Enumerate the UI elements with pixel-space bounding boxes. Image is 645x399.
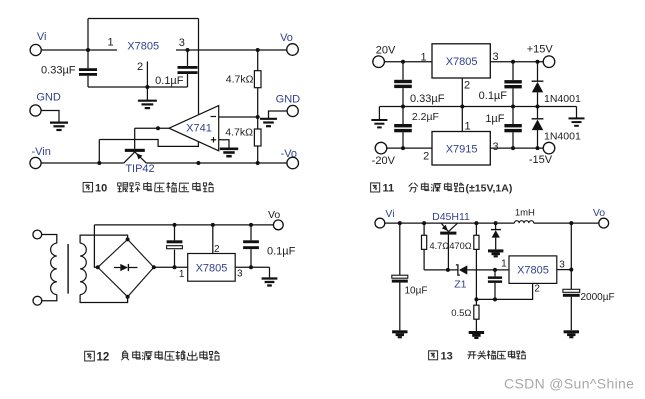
wire input rail fig13: [385, 222, 515, 224]
regulator U3 X7805 box: [432, 44, 490, 78]
junction dot 10uF tap: [398, 221, 402, 225]
pin 2 lead fig12: [212, 225, 214, 254]
bridge inner diode: [114, 267, 120, 269]
junction dot 1uF tap: [511, 146, 515, 150]
junction dot diode2 tap: [536, 146, 540, 150]
junction dot bridge left: [96, 265, 100, 269]
svg-text:1: 1: [465, 121, 471, 133]
svg-text:0.5Ω: 0.5Ω: [451, 308, 471, 319]
wire left edge with 0.33uF branch: [87, 19, 89, 88]
junction dot pin3 fig13: [569, 268, 573, 272]
svg-text:Vi: Vi: [385, 208, 394, 220]
junction dot rail pin2 fig12: [211, 223, 215, 227]
wire 20V to regulator: [384, 61, 432, 63]
wire base lead TIP42: [134, 128, 136, 149]
wire bridge right to regulator pin1: [154, 266, 188, 268]
svg-text:11: 11: [383, 183, 395, 195]
junction dot 4.7ohm tap: [422, 221, 426, 225]
regulator U4 X7915 box: [432, 132, 490, 166]
capacitor 10uF: [399, 223, 401, 275]
svg-text:(±15V,1A): (±15V,1A): [466, 183, 513, 195]
svg-text:-15V: -15V: [529, 154, 553, 166]
ground symbol bus left: [378, 107, 380, 120]
junction dot on output wire: [156, 126, 160, 130]
wire rail drop to bridge left: [94, 225, 97, 267]
wire top rail fig12: [94, 224, 273, 226]
wire -Vin rail left segment: [41, 162, 124, 164]
svg-text:0.1µF: 0.1µF: [479, 90, 508, 102]
caption fig13: [429, 350, 526, 362]
svg-text:0.1µF: 0.1µF: [267, 246, 296, 258]
junction dot diode tap fig13: [494, 221, 498, 225]
zener Z1 triangle: [459, 265, 467, 274]
resistor R1 4.7k upper: [257, 50, 259, 71]
solid ground under diode D3: [488, 249, 503, 252]
regulator U6 X7805 box fig13: [509, 256, 557, 284]
wire output vertical fig13: [570, 223, 572, 289]
junction dot rail mid: [196, 161, 200, 165]
junction dot rail at R2: [256, 161, 260, 165]
svg-text:X7805: X7805: [517, 265, 549, 277]
wire left drop to -Vin rail: [98, 140, 100, 164]
wire pin2 return: [476, 283, 532, 299]
ground symbol fig12: [262, 277, 278, 279]
terminal GND left: [30, 105, 41, 116]
svg-text:2.2µF: 2.2µF: [412, 111, 439, 123]
wire right edge down to op-amp supply: [198, 19, 200, 115]
terminal Vi: [30, 44, 41, 55]
svg-text:Vo: Vo: [268, 209, 280, 221]
wire top edge X7805 loop: [88, 18, 199, 20]
svg-text:1: 1: [179, 269, 185, 280]
junction dot inverting node: [256, 115, 260, 119]
svg-text:Vo: Vo: [280, 32, 293, 44]
wire GND right hook: [269, 111, 288, 118]
zener Z1 bar with ticks: [456, 265, 460, 275]
capacitor 0.1uF fig11: [504, 80, 521, 83]
terminal -20V: [375, 142, 387, 154]
capacitor feedback fig13: [494, 270, 496, 277]
svg-text:0.33µF: 0.33µF: [410, 93, 445, 105]
wire pin3 to output vertical: [557, 269, 572, 271]
svg-text:1: 1: [107, 37, 113, 49]
svg-text:3: 3: [492, 141, 498, 153]
svg-text:2: 2: [137, 61, 143, 73]
pin 3 lead and output wire to Vo: [176, 49, 287, 51]
ground symbol bus right: [576, 107, 578, 118]
transformer T1 secondary winding: [80, 243, 86, 294]
wire inverting input: [219, 116, 258, 118]
junction dot 470ohm tap: [474, 221, 478, 225]
junction dot rail cap1: [173, 223, 177, 227]
wire Vi to node: [41, 49, 88, 51]
junction dot bus pin2: [460, 105, 464, 109]
capacitor 2.2uF fig11: [394, 124, 412, 127]
svg-text:10: 10: [95, 183, 107, 195]
transistor Q2 D45H11 emitter leg with arrow: [441, 223, 448, 232]
wire secondary top to bridge top: [80, 235, 128, 243]
op-amp U2 X741 triangle: [169, 106, 219, 151]
svg-text:CSDN @Sun^Shine: CSDN @Sun^Shine: [504, 376, 634, 392]
transistor TIP42 emitter leg: [124, 152, 135, 163]
wire GND left hook: [41, 111, 59, 122]
wire plus input to ground: [219, 140, 229, 148]
svg-text:2: 2: [423, 151, 429, 163]
regulator U5 X7805 box fig12: [188, 254, 236, 282]
svg-text:GND: GND: [36, 92, 61, 104]
junction dot on -Vin rail left: [97, 161, 101, 165]
wire input top to primary: [42, 235, 57, 244]
junction dot output cap tap: [569, 221, 573, 225]
wire bottom edge: [88, 86, 188, 88]
inductor L1 1mH: [514, 221, 533, 223]
junction dot rail 0.1uF fig12: [249, 223, 253, 227]
svg-text:0.33µF: 0.33µF: [41, 65, 76, 77]
terminal Vi fig13: [375, 218, 385, 228]
svg-text:Vo: Vo: [593, 207, 605, 219]
svg-text:1: 1: [420, 52, 426, 64]
transistor Q2 base bar: [440, 232, 456, 235]
svg-text:+15V: +15V: [527, 43, 554, 55]
svg-text:3: 3: [179, 37, 185, 49]
svg-text:1N4001: 1N4001: [544, 93, 581, 105]
capacitor 2000uF: [563, 289, 580, 292]
svg-text:4.7kΩ: 4.7kΩ: [226, 74, 254, 86]
svg-text:3: 3: [559, 260, 565, 271]
ground symbol GND right: [260, 118, 277, 120]
diode D2 1N4001 lower: [537, 107, 539, 119]
terminal -Vo: [287, 157, 299, 169]
solid ground under 0.5ohm: [469, 331, 484, 334]
ground below pin 2: [146, 87, 148, 100]
ground below plus input: [220, 148, 238, 151]
junction dot Vi node: [86, 48, 90, 52]
junction dot Vo branch: [256, 48, 260, 52]
wire zener row: [424, 269, 509, 271]
wire -Vin rail right segment to -Vo: [146, 162, 287, 164]
transistor Q2 base lead: [447, 235, 449, 270]
capacitor 1uF fig11: [504, 124, 521, 127]
svg-text:2: 2: [464, 80, 470, 92]
capacitor 0.33uF: [79, 68, 97, 71]
svg-text:10µF: 10µF: [405, 286, 428, 297]
junction dot bridge top: [126, 237, 130, 241]
svg-text:4.7Ω: 4.7Ω: [430, 241, 450, 251]
svg-text:GND: GND: [276, 94, 301, 106]
svg-text:X7805: X7805: [196, 263, 228, 275]
terminal Vo fig13: [599, 218, 609, 228]
svg-text:X741: X741: [186, 123, 212, 135]
terminal GND right: [287, 105, 298, 116]
svg-text:470Ω: 470Ω: [449, 241, 471, 251]
resistor R4 470ohm: [475, 223, 477, 235]
svg-text:4.7kΩ: 4.7kΩ: [225, 127, 253, 139]
freewheel diode D3: [495, 223, 497, 230]
svg-text:Vi: Vi: [37, 31, 47, 43]
wire op-amp negative supply Z path: [99, 140, 198, 147]
svg-text:1N4001: 1N4001: [544, 130, 581, 142]
junction dot pin3 node: [249, 265, 253, 269]
wire right branch vertical: [512, 62, 514, 148]
svg-text:X7805: X7805: [446, 56, 478, 68]
junction dot base-zener node: [446, 268, 450, 272]
junction dot bus diode: [536, 105, 540, 109]
svg-text:2000µF: 2000µF: [581, 292, 615, 303]
capacitor 0.33uF fig11: [394, 80, 412, 83]
transformer core line: [67, 244, 69, 294]
wire pin3 to output node: [235, 266, 269, 268]
svg-text:X7915: X7915: [446, 144, 478, 156]
wire input bottom to primary: [42, 295, 57, 301]
wire -20V to X7915: [387, 147, 432, 149]
caption fig10: [83, 182, 213, 194]
svg-text:0.1µF: 0.1µF: [155, 75, 184, 87]
diode D1 1N4001 upper: [537, 62, 539, 81]
transistor Q2 collector leg: [449, 223, 458, 232]
op-amp minus input mark: [211, 116, 217, 118]
terminal +15V: [543, 56, 555, 68]
junction dot 0.1uF tap fig11: [511, 60, 515, 64]
terminal -15V: [543, 142, 555, 154]
op-amp plus input mark: [211, 139, 216, 141]
capacitor 0.1uF fig12: [250, 225, 252, 240]
junction dot cap tap fig13: [493, 268, 497, 272]
pin 2 lead X7805: [146, 62, 148, 88]
ground symbol GND left: [50, 121, 68, 123]
terminal 20V: [373, 56, 385, 68]
svg-text:X7805: X7805: [127, 41, 159, 53]
junction dot bridge right: [152, 265, 156, 269]
wire secondary bottom to bridge bottom: [80, 295, 128, 303]
junction dot at 0.1uF tap: [186, 48, 190, 52]
svg-text:-Vin: -Vin: [32, 146, 51, 158]
wire to ground fig12: [269, 267, 271, 277]
junction dot filter cap bottom: [173, 265, 177, 269]
resistor R2 4.7k lower: [257, 117, 259, 129]
solid ground under 2000uF: [564, 330, 579, 333]
solid ground under 10uF: [392, 330, 407, 333]
terminal -Vin: [30, 157, 41, 168]
svg-text:1mH: 1mH: [515, 208, 535, 219]
wire output rail fig13: [534, 222, 599, 224]
junction dot diode tap fig11: [536, 60, 540, 64]
bridge rectifier diamond: [98, 239, 154, 296]
caption fig12: [85, 351, 220, 364]
terminal input top fig12: [33, 230, 42, 239]
junction dot bus 0.1uF: [511, 105, 515, 109]
svg-text:Z1: Z1: [454, 279, 466, 291]
svg-text:1: 1: [501, 258, 507, 269]
junction dot -20V node: [401, 146, 405, 150]
terminal input bottom fig12: [33, 296, 42, 305]
transistor TIP42 collector leg with arrow: [135, 152, 147, 163]
junction dot bus left: [401, 105, 405, 109]
svg-text:-Vo: -Vo: [281, 148, 298, 160]
capacitor 0.1uF: [187, 50, 189, 66]
pin 1 lead X7805: [88, 49, 117, 51]
pin 2 lead down: [461, 78, 463, 107]
svg-text:2: 2: [534, 284, 540, 295]
terminal Vo: [287, 44, 299, 56]
svg-text:13: 13: [441, 351, 453, 363]
junction dot return 0.5ohm: [474, 297, 478, 301]
pin 1 lead X7915: [461, 107, 463, 132]
svg-text:3: 3: [237, 269, 243, 280]
resistor R3 4.7ohm: [423, 223, 425, 235]
svg-text:12: 12: [97, 352, 110, 364]
svg-text:TIP42: TIP42: [125, 163, 154, 175]
wire regulator output to +15V: [490, 61, 543, 63]
junction dot bridge bottom: [126, 295, 130, 299]
svg-text:D45H11: D45H11: [432, 211, 470, 223]
wire X7915 output to -15V: [490, 147, 543, 149]
svg-text:20V: 20V: [376, 45, 396, 57]
junction dot pin2 ground node: [145, 85, 149, 89]
svg-text:1µF: 1µF: [485, 113, 504, 125]
caption fig11: [371, 183, 513, 195]
wire op-amp output: [135, 127, 169, 129]
resistor R5 0.5ohm: [475, 299, 477, 305]
terminal Vo fig12: [273, 220, 283, 230]
capacitor C1 electrolytic fig12: [174, 225, 176, 240]
wire left branch vertical: [402, 62, 404, 148]
transistor Q1 TIP42 base bar: [125, 149, 145, 152]
svg-text:-20V: -20V: [372, 155, 396, 167]
junction dot return cap: [493, 297, 497, 301]
junction dot 20V node: [401, 60, 405, 64]
transformer T1 primary winding: [51, 243, 57, 294]
ground bus wire: [379, 106, 576, 108]
svg-text:2: 2: [214, 244, 220, 255]
